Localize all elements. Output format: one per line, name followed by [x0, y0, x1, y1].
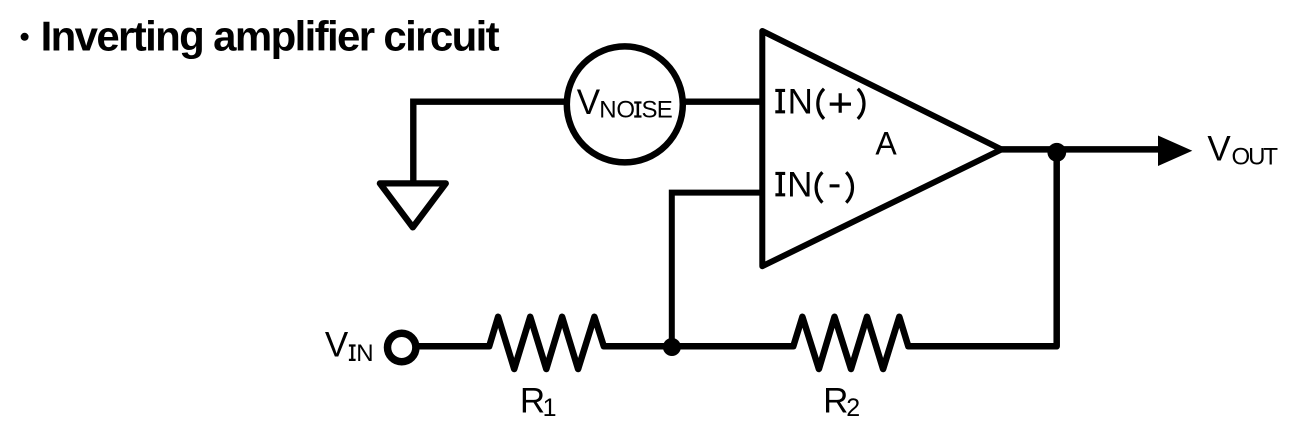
svg-text:SE: SE: [642, 96, 672, 123]
svg-text:1: 1: [543, 394, 557, 422]
svg-text:N: N: [788, 82, 813, 121]
svg-text:OUT: OUT: [1232, 144, 1279, 171]
svg-text:A: A: [875, 126, 897, 162]
svg-text:V: V: [1207, 129, 1231, 168]
svg-text:V: V: [577, 83, 601, 122]
svg-text:N: N: [787, 165, 812, 204]
svg-text:N: N: [356, 340, 373, 367]
svg-text:Inverting amplifier circuit: Inverting amplifier circuit: [41, 12, 500, 59]
svg-text:R: R: [520, 382, 545, 421]
svg-text:2: 2: [846, 394, 860, 422]
svg-text:V: V: [325, 325, 349, 364]
svg-text:R: R: [823, 382, 848, 421]
svg-text:NO: NO: [599, 96, 634, 123]
